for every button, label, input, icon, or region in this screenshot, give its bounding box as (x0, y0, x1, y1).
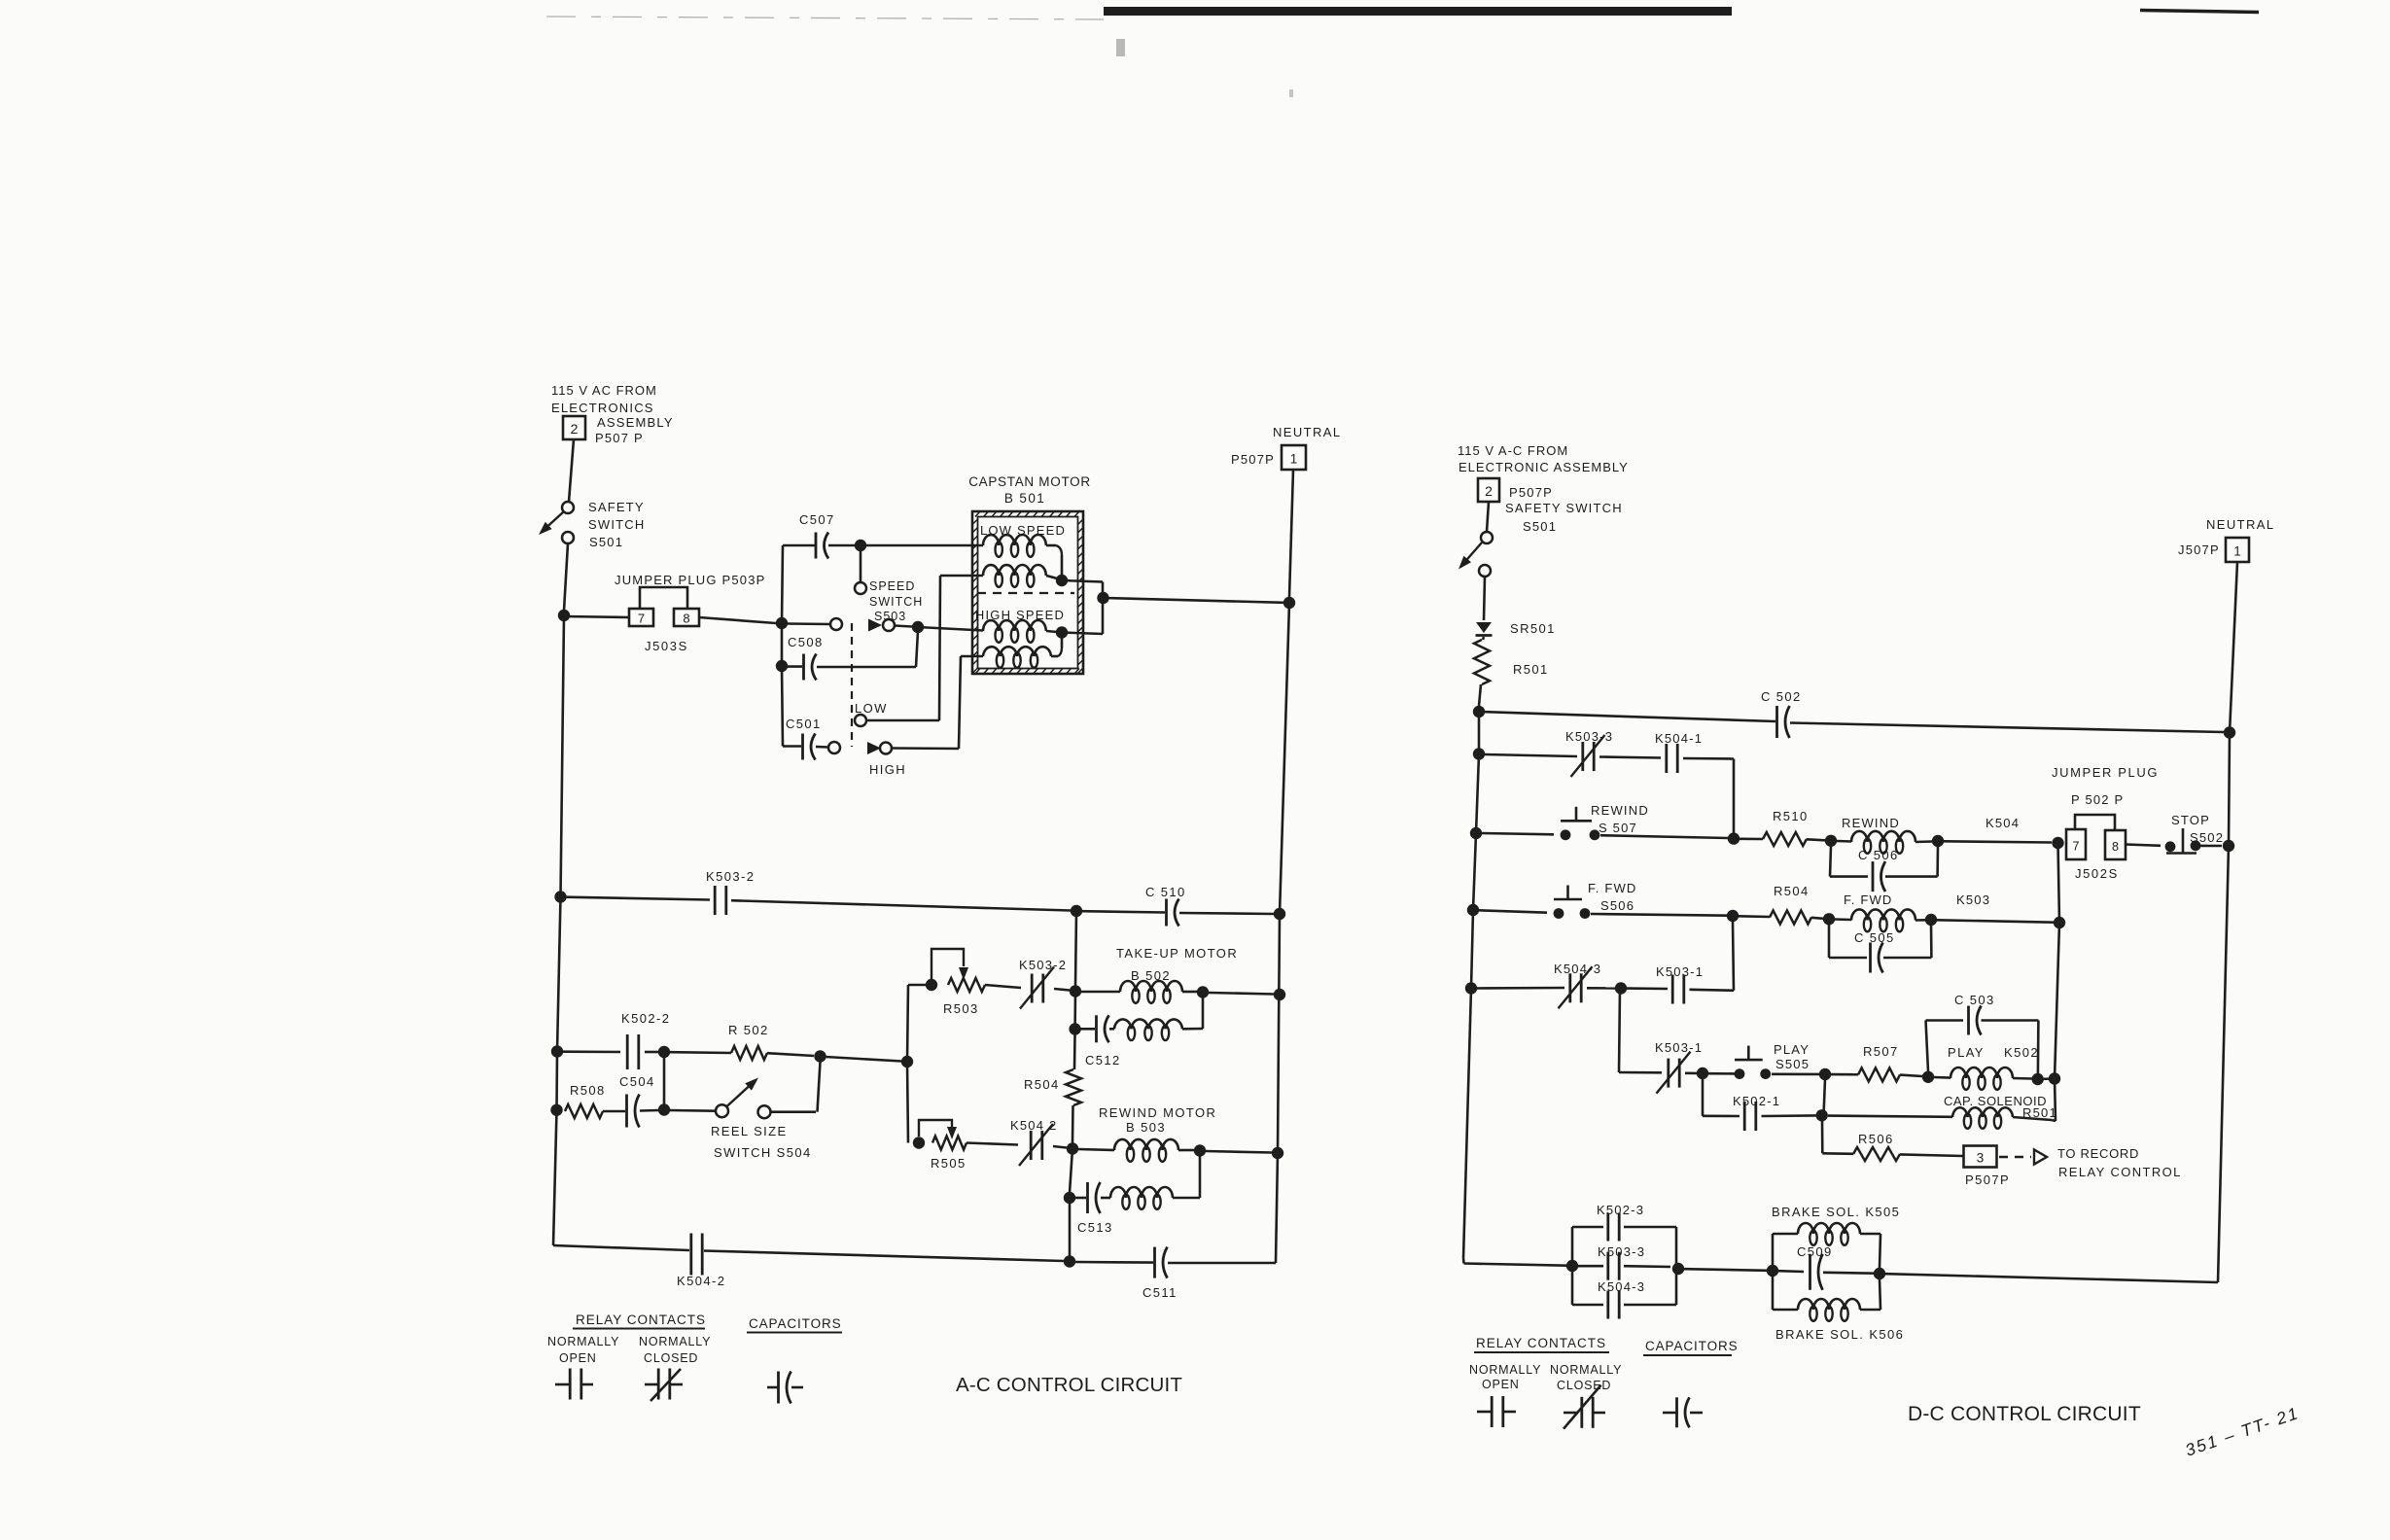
node J junction left bus (554, 891, 566, 902)
safety switch S501 dc (1459, 532, 1493, 577)
node I junction neutral (1283, 597, 1295, 609)
svg-text:8: 8 (683, 612, 689, 626)
capacitor C503 bypass loop (1926, 1006, 2039, 1074)
svg-text:REWIND: REWIND (1842, 816, 1900, 830)
dashed lead to record relay control (1999, 1156, 2031, 1158)
HIGH row wiper arrow (867, 742, 881, 754)
wire K502-2 to node Z (645, 1051, 658, 1054)
take-up auxiliary winding (1114, 1019, 1182, 1040)
wire left bus A-C circuit (553, 615, 564, 1245)
svg-text:C513: C513 (1077, 1220, 1113, 1235)
resistor R501 (1474, 640, 1490, 684)
brake stack left rail (1571, 1227, 1574, 1305)
legend label NORMALLY CLOSED (639, 1335, 711, 1365)
svg-text:HIGH: HIGH (869, 762, 906, 777)
svg-text:8: 8 (2112, 840, 2119, 854)
scan artifact: smudge (1116, 39, 1125, 56)
wire pin2 to safety switch (569, 439, 574, 502)
label C504 (619, 1074, 655, 1089)
svg-text:R501: R501 (1513, 662, 1549, 677)
svg-text:R507: R507 (1863, 1044, 1899, 1059)
jumper plug P503P pin 7 (629, 609, 653, 626)
wire node j to R504dc (1739, 915, 1770, 918)
label LOW SPEED (980, 523, 1066, 538)
svg-text:NORMALLY: NORMALLY (639, 1335, 711, 1348)
wire brake row left (1463, 1258, 1566, 1266)
wire K504 coil to node g (1916, 840, 1932, 843)
rewind motor B503 winding (1114, 1139, 1178, 1162)
svg-text:ASSEMBLY: ASSEMBLY (597, 415, 674, 430)
handwritten sheet number 351-TT-21 (2183, 1403, 2302, 1460)
wire node Z to R502 (670, 1051, 731, 1054)
wire node G drop (1102, 582, 1105, 635)
connector pin 1 J507P (2226, 538, 2249, 562)
svg-text:P 502 P: P 502 P (2071, 792, 2124, 807)
label B503 (1126, 1120, 1166, 1135)
label K504-2 (677, 1274, 725, 1288)
brake solenoid K505 branch (1773, 1223, 1880, 1268)
wire reel switch riser to node AA (771, 1062, 821, 1112)
svg-text:B 502: B 502 (1131, 968, 1171, 983)
wire node u drop to R506 row (1822, 1121, 1853, 1154)
svg-text:1: 1 (2233, 544, 2241, 559)
label NEUTRAL dc (2206, 517, 2274, 532)
jumper plug P502P pin 8 (2105, 830, 2126, 859)
wire C502 row left (1479, 712, 1775, 721)
svg-text:K502-2: K502-2 (621, 1011, 670, 1026)
relay contact K502-1 (NO) (1744, 1102, 1756, 1131)
svg-text:SWITCH: SWITCH (869, 595, 923, 609)
relay contact K504-1 (NO) (1667, 744, 1677, 773)
node O junction B503 row (1067, 1142, 1078, 1154)
label REEL SIZE SWITCH S504 (711, 1124, 812, 1160)
svg-text:STOP: STOP (2171, 813, 2210, 827)
wire R510 to node f (1807, 839, 1825, 840)
node T junction (1197, 986, 1209, 997)
node v junction neutral bus (2223, 840, 2234, 852)
legend NC contact symbol (645, 1369, 683, 1402)
wire center bus K to B502 row (1075, 911, 1076, 986)
capstan low-speed winding 2 (983, 565, 1046, 587)
wire R503 branch riser (907, 985, 908, 1062)
reel size switch S504 throw (758, 1105, 771, 1118)
node y junction brake sol left (1767, 1265, 1778, 1277)
node P junction C513 row (1064, 1192, 1075, 1204)
wire node s to node t (2038, 1077, 2055, 1080)
wire pin2 to safety switch dc (1487, 502, 1489, 532)
node Z junction (658, 1046, 670, 1058)
wire node CC to reel switch (670, 1109, 716, 1112)
node BB junction left bus (550, 1104, 562, 1116)
svg-text:B 503: B 503 (1126, 1120, 1166, 1135)
capacitor C505 bypass loop (1829, 925, 1931, 973)
HIGH row contact circle (880, 743, 892, 754)
wire center bus O to C513 (1070, 1149, 1072, 1194)
svg-text:115 V AC FROM: 115 V AC FROM (551, 383, 657, 398)
svg-text:R503: R503 (943, 1001, 979, 1016)
wire K502-2 lead (563, 1050, 620, 1053)
node b junction neutral bus (2224, 726, 2235, 738)
title A-C CONTROL CIRCUIT (956, 1374, 1182, 1396)
svg-text:P507P: P507P (1231, 452, 1275, 467)
wire C510 lead right (1179, 913, 1274, 914)
jumper plug P503P pin 8 (674, 609, 699, 626)
pushbutton PLAY S505 (1735, 1046, 1772, 1079)
node z junction brake sol right (1874, 1268, 1885, 1279)
wire node W to right bus (1206, 1151, 1272, 1153)
label R510 (1773, 809, 1809, 823)
wire node AA to node R (826, 1057, 901, 1062)
label C512 (1085, 1053, 1121, 1067)
label CAP. SOLENOID R501 (1944, 1094, 2057, 1120)
node N junction C512 row (1069, 1023, 1080, 1034)
capacitor C508 (804, 654, 817, 681)
title D-C CONTROL CIRCUIT (1908, 1403, 2141, 1425)
wire C502 row right (1790, 723, 2224, 733)
wire S505 to node q (1772, 1073, 1819, 1076)
wire node Z to node CC (663, 1052, 666, 1110)
label R506 (1858, 1132, 1894, 1146)
relay coil REWIND K504 (1851, 831, 1916, 854)
svg-text:K502-3: K502-3 (1597, 1203, 1644, 1217)
wire B502 to node T (1182, 991, 1197, 994)
wire S506 to node j (1591, 914, 1727, 916)
legend heading CAPACITORS (747, 1316, 842, 1333)
connector pin 1 P507P (1282, 445, 1306, 470)
wire node o to K503-1 (1627, 987, 1668, 990)
capacitor C507 (816, 533, 828, 559)
node d junction rewind row (1470, 827, 1482, 839)
wire pin8 to node B (699, 617, 776, 623)
label R502 (728, 1023, 769, 1037)
wire winding3 to node G riser (1062, 633, 1103, 635)
svg-text:K504-1: K504-1 (1655, 731, 1703, 746)
wire winding2 to node F (1046, 576, 1061, 579)
svg-text:CAPSTAN MOTOR: CAPSTAN MOTOR (968, 474, 1091, 489)
svg-text:K504-3: K504-3 (1598, 1279, 1645, 1294)
svg-text:F. FWD: F. FWD (1844, 892, 1893, 907)
svg-text:CLOSED: CLOSED (644, 1351, 698, 1365)
svg-text:C512: C512 (1085, 1053, 1121, 1067)
svg-text:ELECTRONIC ASSEMBLY: ELECTRONIC ASSEMBLY (1459, 460, 1629, 474)
wire C508 lead (782, 665, 802, 668)
label F. FWD S506 (1588, 881, 1637, 913)
wire node W drop to C513 winding (1199, 1151, 1202, 1199)
legend capacitor symbol dc (1663, 1397, 1703, 1427)
label R505 (931, 1156, 967, 1171)
capacitor C512 (1097, 1015, 1109, 1042)
wire K504-3 lead (1477, 987, 1564, 990)
svg-text:K503-2: K503-2 (706, 869, 755, 884)
pushbutton F.FWD S506 (1554, 886, 1591, 919)
label JUMPER PLUG (2052, 765, 2159, 780)
wire node q to R507 (1831, 1073, 1858, 1076)
capacitor C511 (1155, 1247, 1168, 1278)
svg-text:S506: S506 (1600, 898, 1634, 913)
wire node p to S505 (1708, 1072, 1735, 1075)
wire left bus d-i (1473, 833, 1476, 910)
scan artifact: black banner strip top (1104, 7, 1732, 16)
label C506 (1858, 848, 1899, 862)
svg-text:LOW: LOW (855, 701, 888, 716)
label 115 V AC FROM ELECTRONICS ASSEMBLY P507P (551, 383, 674, 445)
legend heading RELAY CONTACTS dc (1474, 1336, 1609, 1352)
svg-text:JUMPER PLUG: JUMPER PLUG (2052, 765, 2159, 780)
label K504-3 contact (1554, 962, 1601, 976)
wire node l to jumper node m (1937, 920, 2054, 922)
node u junction (1816, 1109, 1828, 1121)
relay coil PLAY K502 (1951, 1067, 2013, 1090)
label K503-3 (1565, 729, 1613, 744)
relay contact K502-2 (NO) (627, 1034, 639, 1069)
wire node O to B503 (1078, 1149, 1114, 1150)
wire K503-3 to K504-1 (1599, 757, 1661, 758)
svg-text:K504-2: K504-2 (677, 1274, 725, 1288)
wire brake row to C509 (1778, 1270, 1804, 1273)
wire node F to node G (1062, 580, 1103, 582)
wire K502 coil to node s (2013, 1077, 2032, 1080)
label HIGH SPEED (975, 608, 1065, 622)
wire brake row to right corner (1885, 1274, 2218, 1282)
node m junction jumper bus (2054, 917, 2065, 928)
legend NO contact symbol dc (1477, 1396, 1516, 1427)
label PLAY K502 coil (1948, 1045, 2039, 1060)
label SPEED SWITCH S503 (869, 579, 923, 623)
node D junction (912, 621, 924, 633)
svg-text:1: 1 (1290, 452, 1298, 467)
wire K503-2b to node M (1054, 989, 1070, 991)
wire left bus i-n (1471, 910, 1473, 989)
wire C501 to HIGH contact (816, 746, 828, 749)
svg-text:3: 3 (1977, 1151, 1985, 1166)
LOW contact circle (855, 715, 866, 726)
svg-text:R508: R508 (570, 1083, 606, 1098)
svg-text:C508: C508 (788, 635, 824, 649)
label PLAY S505 (1774, 1042, 1810, 1071)
rewind auxiliary winding (1110, 1187, 1173, 1209)
jumper plug P503P bracket (640, 587, 687, 609)
svg-text:C511: C511 (1142, 1285, 1177, 1300)
wire node g to jumper node h (1944, 841, 2052, 842)
reel size switch S504 pole (716, 1104, 728, 1117)
wire stack to brake sol (1684, 1269, 1767, 1271)
svg-text:TO RECORD: TO RECORD (2057, 1146, 2139, 1161)
svg-text:P507P: P507P (1965, 1172, 2010, 1187)
brake solenoid K506 branch (1773, 1277, 1880, 1321)
take-up motor B502 winding (1120, 981, 1182, 1003)
svg-text:REWIND MOTOR: REWIND MOTOR (1099, 1105, 1216, 1120)
label P507P dc (1509, 485, 1553, 500)
wire winding4 to node H (1051, 638, 1062, 656)
svg-text:SWITCH S504: SWITCH S504 (714, 1145, 812, 1160)
capstan section divider dashed (977, 592, 1074, 594)
wire node u to solenoid coil (1828, 1116, 1952, 1117)
brake stack right rail (1675, 1227, 1678, 1305)
svg-text:NORMALLY: NORMALLY (1469, 1363, 1541, 1377)
wire C508 to node D riser (817, 631, 918, 667)
wire R506 to pin 3 (1900, 1154, 1963, 1156)
svg-text:K503-3: K503-3 (1598, 1244, 1645, 1259)
wire K503-1 to ffwd riser (1690, 922, 1735, 991)
wire solenoid to jumper bus (2013, 1117, 2056, 1121)
rheostat R505 wiper bracket (919, 1120, 957, 1139)
label SR501 (1510, 621, 1556, 636)
HIGH row open contact (828, 742, 840, 753)
solenoid coil CAP SOLENOID R501 (1952, 1107, 2013, 1129)
legend label NORMALLY OPEN dc (1469, 1363, 1541, 1391)
wire S503 to node D (895, 626, 912, 627)
node k junction (1823, 913, 1835, 925)
wire K502-1 to node u (1762, 1114, 1816, 1117)
wire node e to R510 (1740, 837, 1763, 840)
svg-text:C501: C501 (786, 717, 822, 731)
wire stop to neutral bus (2200, 845, 2222, 848)
wire aux winding to node T riser (1182, 1028, 1203, 1031)
wire R507 to node r (1900, 1075, 1922, 1076)
wire center bus M to C512 (1073, 992, 1076, 1030)
wire R504dc to node k (1811, 918, 1823, 919)
capacitor C506 bypass loop (1830, 846, 1938, 892)
node p junction (1697, 1067, 1708, 1079)
svg-text:K504 2: K504 2 (1010, 1118, 1057, 1133)
capacitor C510 (1167, 899, 1179, 927)
svg-text:OPEN: OPEN (559, 1351, 597, 1365)
relay contact K503-2 (NO) (715, 886, 726, 915)
rectifier SR501 (1476, 622, 1493, 636)
node C junction (855, 540, 866, 551)
capstan high-speed winding 4 (983, 647, 1051, 668)
wire node k to K503 coil (1835, 918, 1851, 921)
label K504 2 (1010, 1118, 1057, 1133)
relay contact K503-1 play (NC) (1657, 1052, 1691, 1094)
label B502 (1131, 968, 1171, 983)
wire play row lead (1619, 1071, 1662, 1074)
svg-text:C509: C509 (1797, 1244, 1833, 1259)
relay contact K503-3 brake (NO) (1578, 1252, 1670, 1280)
wire LOW to winding 2 (866, 576, 983, 720)
label J503S (645, 639, 688, 653)
label C511 (1142, 1285, 1177, 1300)
pushbutton STOP S502 (NC) (2165, 828, 2201, 854)
svg-text:S501: S501 (589, 535, 623, 549)
wire node Q to C511 (1075, 1261, 1153, 1264)
label K504-1 (1655, 731, 1703, 746)
svg-text:K503-2: K503-2 (1019, 958, 1067, 972)
node AA junction (814, 1050, 826, 1062)
svg-text:7: 7 (2073, 840, 2080, 854)
relay contact K503-2 motor (NC) (1020, 967, 1054, 1009)
label R504 dc (1774, 884, 1810, 898)
speed switch S503 pole circle (855, 582, 866, 594)
svg-text:C504: C504 (619, 1074, 655, 1089)
node o junction (1615, 982, 1627, 994)
wire C509 to node z (1823, 1272, 1874, 1275)
speed switch S503 stem (860, 550, 862, 582)
wire node r to K502 coil (1934, 1076, 1951, 1079)
node V junction R505 wiper (913, 1137, 925, 1148)
wire K504-1 to rewind row (1683, 758, 1734, 833)
wire S501 to node A (564, 543, 568, 611)
svg-text:S 507: S 507 (1599, 821, 1637, 835)
label LOW (855, 701, 888, 716)
scan artifact: short black line top right (2140, 11, 2259, 13)
resistor R504 dc (1770, 911, 1811, 925)
label R501 (1513, 662, 1549, 677)
wire C507 to node C (828, 544, 856, 547)
node G junction (1097, 592, 1108, 604)
wire R508 to C504 (603, 1110, 625, 1113)
svg-text:OPEN: OPEN (1482, 1378, 1520, 1391)
wire node B to S503 contact (788, 622, 830, 625)
label REWIND S507 (1591, 803, 1649, 835)
wire ffwd row lead (1479, 910, 1547, 912)
label K503-1 play (1655, 1040, 1703, 1055)
label J507P (2178, 542, 2220, 557)
label C501 (786, 717, 822, 731)
capacitor C504 (627, 1095, 640, 1128)
wire cap-bank left bus middle (781, 623, 784, 666)
resistor R510 (1763, 832, 1807, 846)
svg-text:K502: K502 (2004, 1045, 2039, 1060)
label C505 (1854, 930, 1895, 945)
S503 row wiper arrow (868, 619, 882, 632)
svg-text:P507P: P507P (1509, 485, 1553, 500)
wire SR501 to R501 (1483, 637, 1484, 640)
wire winding1 right drop (1046, 545, 1062, 576)
svg-text:2: 2 (571, 421, 579, 437)
relay coil F.FWD K503 (1851, 909, 1916, 931)
wire neutral bus upper (1280, 603, 1289, 914)
wire C511 to right bus corner (1168, 1262, 1276, 1265)
label K502-3 (1597, 1203, 1644, 1217)
relay contact K504-3 brake (NO) (1572, 1291, 1676, 1319)
wire R501 to node a (1479, 684, 1481, 706)
label BRAKE SOL. K506 (1775, 1327, 1904, 1342)
svg-text:K503-1: K503-1 (1656, 964, 1704, 979)
wire K503-3 lead (1485, 754, 1577, 756)
wire C504 to node CC (640, 1109, 658, 1112)
wire R503 to K503-2b (985, 985, 1021, 988)
node E junction (776, 660, 788, 672)
node a junction (1473, 706, 1485, 717)
node S junction R503 wiper (926, 979, 937, 991)
svg-text:D-C CONTROL CIRCUIT: D-C CONTROL CIRCUIT (1908, 1403, 2141, 1425)
label C502 (1761, 689, 1802, 704)
wire pin8 to stop switch (2126, 845, 2161, 846)
rheostat R505 (932, 1137, 967, 1150)
node M junction B502 row (1070, 985, 1081, 997)
svg-text:R 502: R 502 (728, 1023, 769, 1037)
svg-text:JUMPER PLUG P503P: JUMPER PLUG P503P (615, 573, 766, 587)
svg-text:PLAY: PLAY (1774, 1042, 1810, 1057)
node j junction (1727, 910, 1739, 922)
node h junction jumper bus (2052, 837, 2063, 849)
label REWIND K504 coil (1842, 816, 2020, 830)
svg-text:BRAKE SOL. K505: BRAKE SOL. K505 (1772, 1205, 1900, 1219)
label TO RECORD RELAY CONTROL (2057, 1146, 2182, 1179)
label REWIND MOTOR (1099, 1105, 1216, 1120)
wire node P to capacitor C513 (1075, 1197, 1086, 1200)
node Q junction bottom row (1064, 1255, 1075, 1267)
resistor R507 (1858, 1067, 1900, 1081)
node K junction center bus top (1071, 905, 1082, 917)
label HIGH (869, 762, 906, 777)
label P502P (2071, 792, 2124, 807)
legend capacitor symbol (767, 1372, 803, 1404)
svg-text:NORMALLY: NORMALLY (547, 1335, 619, 1348)
wire node T drop to C512 winding (1202, 993, 1205, 1030)
capacitor C509 (1810, 1254, 1823, 1290)
